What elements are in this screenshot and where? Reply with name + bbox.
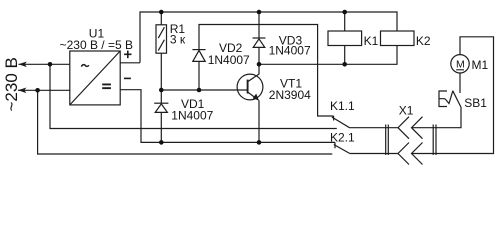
svg-text:K1.1: K1.1 — [330, 99, 355, 113]
svg-text:~230 В / =5 В: ~230 В / =5 В — [60, 38, 133, 52]
svg-text:M1: M1 — [472, 58, 489, 72]
svg-text:M: M — [456, 59, 465, 71]
svg-text:K2: K2 — [416, 34, 431, 48]
svg-text:1N4007: 1N4007 — [208, 53, 250, 67]
svg-text:K1: K1 — [364, 34, 379, 48]
svg-text:K2.1: K2.1 — [330, 131, 355, 145]
svg-text:3 к: 3 к — [170, 33, 186, 47]
svg-text:X1: X1 — [399, 104, 414, 118]
svg-text:1N4007: 1N4007 — [171, 108, 213, 122]
svg-text:~230 В: ~230 В — [2, 57, 21, 111]
svg-text:1N4007: 1N4007 — [269, 44, 311, 58]
svg-text:SB1: SB1 — [464, 96, 487, 110]
svg-text:2N3904: 2N3904 — [269, 88, 311, 102]
